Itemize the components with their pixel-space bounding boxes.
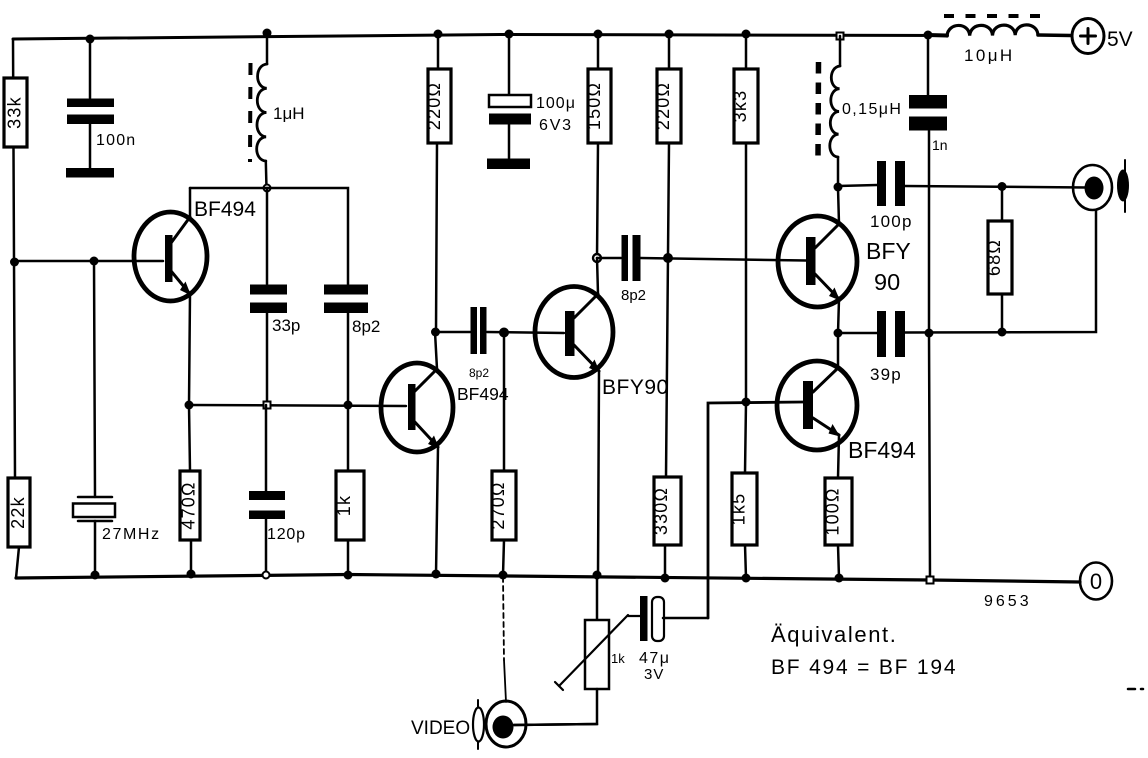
resistor 330R — [651, 477, 681, 545]
resistor 22k — [8, 478, 30, 547]
junction dot 1k at rail — [344, 571, 353, 580]
wire 0.15uH top lead — [839, 36, 842, 66]
wire Q5 collector riser — [837, 333, 840, 368]
wire 220R#1 down to Q2 collector node — [436, 143, 437, 332]
capacitor C 47u electrolytic — [640, 596, 664, 641]
svg-text:150Ω: 150Ω — [584, 82, 604, 130]
capacitor C 100u electrolytic — [489, 95, 531, 125]
junction dot 100R at rail — [835, 574, 844, 583]
svg-text:100p: 100p — [870, 212, 913, 231]
svg-text:47μ: 47μ — [639, 650, 671, 667]
wire 470R bottom lead — [190, 540, 193, 574]
wire 220R#2 top lead — [668, 34, 671, 69]
wire 220R#2 down to 330R — [666, 143, 669, 477]
wire Q4 collector riser — [838, 188, 839, 224]
wire 8p2 coupling left lead — [435, 331, 470, 334]
potentiometer 1k — [555, 615, 628, 690]
junction dot 270R node — [499, 328, 509, 338]
svg-text:1k: 1k — [334, 495, 354, 516]
svg-text:BF494: BF494 — [848, 437, 916, 463]
terminal +5V — [1072, 19, 1104, 54]
wire 8p2 bottom lead — [347, 313, 350, 405]
svg-text:470Ω: 470Ω — [179, 481, 199, 529]
transistor Q5 BF494 — [777, 361, 857, 450]
junction dot Q2 collector node — [431, 328, 440, 337]
junction dot crystal branch — [90, 257, 99, 266]
transistor Q1 BF494 — [134, 212, 207, 301]
svg-text:BF494: BF494 — [194, 198, 256, 221]
svg-text:100μ: 100μ — [536, 95, 576, 112]
wire Q3 emitter drop — [598, 371, 599, 575]
svg-text:3V: 3V — [644, 666, 664, 683]
junction dot 1k5 at rail — [742, 574, 751, 583]
svg-text:68Ω: 68Ω — [984, 239, 1004, 276]
svg-text:VIDEO: VIDEO — [411, 718, 470, 739]
svg-text:1k5: 1k5 — [729, 493, 749, 526]
svg-text:8p2: 8p2 — [469, 366, 489, 380]
RF plug symbol — [1117, 160, 1129, 212]
junction dot 68R bottom node — [998, 328, 1007, 337]
svg-text:90: 90 — [874, 269, 900, 295]
transistor Q2 BF494 — [381, 363, 453, 452]
wire 270R top lead — [503, 332, 506, 471]
capacitor C 1n — [909, 95, 947, 131]
svg-text:27MHz: 27MHz — [102, 526, 161, 543]
svg-text:10μH: 10μH — [964, 46, 1015, 65]
svg-text:100n: 100n — [96, 132, 136, 149]
resistor 1k5 — [729, 473, 758, 545]
wire 100R bottom lead — [838, 545, 839, 578]
junction dot 100n at rail — [86, 35, 95, 44]
junction square 1n at ground rail — [927, 577, 934, 584]
svg-text:8p2: 8p2 — [621, 287, 646, 304]
wire Q5 base line from 47u — [708, 402, 803, 618]
junction dot crystal at rail — [91, 571, 100, 580]
ground bar under 100n — [66, 168, 114, 178]
wire 3k3 top lead — [745, 34, 748, 69]
RF output connector — [1073, 165, 1112, 210]
wire video shield drop — [503, 577, 504, 660]
inductor L 10uH — [947, 25, 1038, 36]
wire emitter node line y=405 — [189, 405, 406, 406]
wire 68R bottom lead — [1001, 294, 1004, 332]
svg-text:270Ω: 270Ω — [488, 481, 508, 529]
junction dot 3k3 at rail — [742, 30, 751, 39]
wire 8p2 coupling right lead — [487, 332, 564, 333]
wire 39p left lead — [838, 332, 877, 335]
wire pot bottom to video pin — [514, 689, 597, 725]
transistor Q3 BFY90 — [535, 287, 613, 378]
capacitor C 39p (vertical plates) — [877, 311, 905, 357]
junction dot 1k/8p2 node — [344, 401, 353, 410]
svg-text:0: 0 — [1090, 569, 1102, 594]
svg-text:BFY: BFY — [866, 238, 911, 264]
wire output line to RF connector — [905, 186, 1086, 188]
wire rail to 10uH (thick) — [928, 33, 947, 38]
wire 10uH to +5V terminal — [1038, 33, 1071, 37]
wire 1k5 bottom lead — [745, 545, 746, 578]
junction dot 270R at rail — [499, 571, 508, 580]
wire 68R top lead — [1001, 186, 1004, 221]
junction dot 1n at 39p line — [925, 329, 934, 338]
wire 120p bottom lead — [265, 519, 268, 575]
wire Q4 emitter drop — [838, 299, 839, 333]
wire 1k top lead — [347, 405, 350, 471]
wire 470R top lead — [189, 405, 190, 471]
junction dot 220R#2 at rail — [665, 30, 674, 39]
junction dot Q1 emitter node — [185, 401, 194, 410]
svg-text:1n: 1n — [932, 137, 948, 153]
junction dot Q2 emitter at rail — [432, 570, 441, 579]
junction dot 470R at rail — [187, 570, 196, 579]
wire 22k bottom lead — [16, 547, 19, 578]
resistor 220R#2 — [653, 69, 681, 143]
junction square 33p/120p node — [264, 402, 271, 409]
wire 100u to ground bar — [508, 125, 511, 159]
stray marks bottom right — [1128, 688, 1143, 691]
resistor 33k — [4, 78, 27, 147]
transistor Q4 BFY90 — [778, 216, 857, 307]
wire crystal top lead — [94, 261, 95, 497]
wire Q2 emitter drop — [436, 447, 438, 574]
VIDEO connector — [486, 701, 597, 747]
node A junction square — [10, 258, 19, 267]
resistor 470R — [179, 471, 201, 540]
svg-text:100Ω: 100Ω — [823, 487, 843, 535]
svg-text:1μH: 1μH — [273, 104, 305, 123]
capacitor C 100n — [67, 99, 114, 125]
inductor L 1uH — [257, 64, 267, 161]
wire 1n top lead — [927, 35, 930, 95]
wire 1k5 top lead — [745, 402, 746, 473]
wire 1uH bottom lead — [265, 161, 268, 188]
svg-text:8p2: 8p2 — [352, 317, 380, 336]
junction dot 220R#1 at rail — [434, 30, 443, 39]
svg-text:33k: 33k — [5, 96, 25, 129]
wire top supply rail — [13, 35, 947, 40]
junction dot 100u at rail — [505, 30, 514, 39]
junction dot 1n at rail — [924, 31, 933, 40]
wire Q5 emitter drop — [838, 435, 839, 478]
wire 220R#1 top lead — [437, 34, 440, 69]
wire 3k3 down to Q5 base node — [745, 143, 748, 402]
junction dot 150R at rail — [594, 30, 603, 39]
wire 100n top lead — [89, 39, 92, 98]
svg-text:39p: 39p — [870, 365, 902, 384]
junction ring 120p at rail — [263, 572, 270, 579]
wire 47u to Q5 base riser — [663, 617, 708, 620]
wire 1n down to ground rail — [929, 131, 930, 580]
wire 100u top lead — [508, 34, 511, 95]
junction dot 1uH at rail — [263, 29, 272, 38]
wire Q1 emitter drop — [189, 294, 190, 405]
node dot 1uH bottom — [264, 185, 271, 192]
svg-text:330Ω: 330Ω — [651, 487, 671, 535]
capacitor C 8p2 coupling (vertical plates) — [471, 307, 487, 354]
svg-text:0,15μH: 0,15μH — [842, 101, 902, 118]
resistor 270R — [488, 471, 516, 540]
wire 0.15uH bottom lead — [837, 157, 840, 187]
node A base line of Q1 — [14, 260, 163, 263]
wire Q1 collector riser — [189, 188, 192, 217]
wire pot wiper to 47u — [628, 615, 640, 617]
resistor 3k3 — [730, 69, 758, 143]
wire 270R bottom lead — [503, 540, 504, 575]
wire top node line y=188 — [190, 188, 348, 284]
crystal X1 27MHz — [73, 497, 115, 521]
wire Q4 base line — [640, 258, 806, 261]
resistor 100R — [823, 478, 853, 545]
dashed core of 10uH — [944, 14, 1041, 18]
svg-text:6V3: 6V3 — [539, 117, 573, 134]
svg-text:BF 494 = BF 194: BF 494 = BF 194 — [771, 656, 957, 679]
junction square 0.15uH at rail — [837, 33, 844, 40]
ground bar under 100u — [487, 159, 530, 170]
svg-text:BF494: BF494 — [457, 384, 509, 404]
wire 330R bottom lead — [664, 545, 667, 578]
svg-text:9653: 9653 — [984, 593, 1032, 610]
svg-text:3k3: 3k3 — [730, 90, 750, 123]
capacitor C 8p2 (tank) — [324, 285, 368, 314]
wire 8p2 interstage left lead — [597, 257, 621, 260]
svg-text:220Ω: 220Ω — [424, 82, 444, 130]
resistor 1k — [334, 471, 364, 540]
resistor 150R — [584, 69, 611, 143]
dashed core of 1uH — [248, 63, 253, 162]
capacitor C 8p2 interstage (vertical plates) — [622, 235, 641, 281]
wire crystal bottom lead — [94, 521, 97, 575]
wire 100n to ground bar — [89, 124, 92, 168]
dashed core of 0.15uH — [815, 62, 821, 158]
junction ring Q3 collector node — [593, 254, 601, 262]
wire Q3 collector riser — [597, 258, 598, 294]
wire 1k bottom lead — [347, 540, 350, 575]
svg-text:120p: 120p — [267, 526, 306, 543]
wire 150R top lead — [597, 34, 600, 69]
wire 33p top lead — [266, 188, 269, 284]
junction dot 220R#2 / 330R node — [663, 253, 673, 263]
wire Q2 collector riser — [435, 332, 437, 369]
junction dot Q4 collector node — [834, 183, 843, 192]
terminal 0V — [1080, 563, 1112, 600]
junction dot Q5 base node — [742, 398, 751, 407]
svg-text:Äquivalent.: Äquivalent. — [771, 622, 897, 647]
wire 1uH top lead — [266, 33, 269, 64]
wire 150R bottom lead to Q3 collector node — [597, 143, 598, 258]
junction dot Q4 emitter / Q5 collector node — [834, 329, 843, 338]
svg-text:1k: 1k — [611, 651, 625, 666]
inductor L 0.15uH — [830, 66, 840, 157]
svg-text:5V: 5V — [1107, 28, 1133, 51]
capacitor C 33p — [250, 285, 287, 314]
wire bottom ground rail — [16, 575, 1080, 583]
svg-text:220Ω: 220Ω — [653, 82, 673, 130]
svg-text:22k: 22k — [8, 496, 28, 529]
wire 33p bottom lead — [266, 313, 269, 405]
wire left rail — [13, 39, 15, 478]
junction dot 330R at rail — [661, 574, 670, 583]
resistor 220R#1 — [424, 69, 451, 143]
svg-text:33p: 33p — [272, 316, 300, 335]
wire 100p left lead — [838, 185, 877, 186]
junction dot Q3 emitter at rail — [593, 571, 602, 580]
svg-text:BFY90: BFY90 — [602, 376, 669, 399]
capacitor C 100p (vertical plates) — [877, 161, 905, 206]
capacitor C 120p — [249, 491, 285, 519]
wire 120p top lead — [265, 405, 268, 491]
wire 39p output line — [905, 210, 1096, 333]
junction dot 68R top node — [998, 182, 1007, 191]
VIDEO plug symbol — [473, 700, 484, 749]
wire pot top lead — [596, 575, 599, 620]
resistor 68R — [984, 221, 1012, 294]
